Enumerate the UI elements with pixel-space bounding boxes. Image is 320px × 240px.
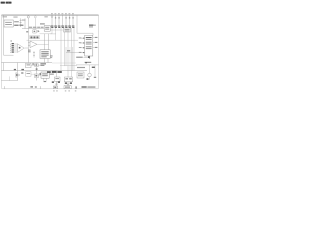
- wire: [17, 63, 19, 74]
- wire: [92, 33, 94, 35]
- wire: [50, 29, 63, 31]
- wire trunk B: [34, 18, 36, 29]
- frame: [1, 15, 98, 89]
- terminal circle A: [27, 16, 29, 18]
- wire bus: [22, 28, 44, 30]
- wire: [24, 18, 26, 28]
- mark: [75, 86, 76, 88]
- pin labels right: [95, 37, 98, 48]
- terminal circle C: [51, 16, 53, 18]
- label row: [14, 25, 18, 26]
- label: [30, 86, 33, 87]
- pin stubs right: [93, 38, 95, 48]
- title: [1, 2, 12, 4]
- wire right riser: [76, 15, 78, 33]
- wire: [40, 33, 53, 35]
- label: [40, 23, 45, 24]
- connector pin labels: [51, 25, 75, 28]
- pin labels: [12, 43, 14, 53]
- label row under top rail: [2, 16, 47, 20]
- fusible link: [20, 18, 22, 27]
- terminal circle B: [34, 16, 36, 18]
- arrow ticks: [10, 41, 12, 53]
- wire: [48, 34, 50, 50]
- main bus 2: [1, 70, 87, 72]
- lamp box B2: [77, 72, 84, 78]
- wire: [94, 65, 96, 78]
- label: [52, 81, 54, 83]
- label: [40, 63, 46, 64]
- pin arrows: [83, 38, 84, 54]
- wire: [60, 64, 77, 66]
- wire: [50, 33, 56, 35]
- pin stubs left: [66, 38, 85, 52]
- label: [65, 82, 67, 84]
- antenna feed triangle: [18, 44, 25, 53]
- label: [14, 69, 16, 70]
- label: [44, 81, 47, 82]
- wire mid bus: [27, 39, 79, 41]
- label: [50, 74, 54, 75]
- pin numbers below rail: [53, 90, 76, 91]
- label dark row: [47, 71, 62, 73]
- label top right: [89, 25, 96, 28]
- junction box J1: [44, 26, 50, 32]
- transistor chain Q1: [31, 63, 41, 81]
- wire label row: [29, 27, 44, 28]
- label: [70, 82, 72, 84]
- top rail: [1, 14, 98, 16]
- relay box K2: [64, 28, 71, 32]
- wire: [77, 32, 93, 34]
- wire: [4, 54, 14, 56]
- label: [26, 31, 28, 32]
- label: [32, 63, 34, 64]
- ground G1: [55, 81, 58, 85]
- wires into antenna feed: [14, 44, 18, 52]
- wire: [25, 47, 29, 49]
- main bus 1: [1, 62, 52, 64]
- ECU box M1: [40, 50, 50, 59]
- label: [35, 86, 37, 87]
- wire: [9, 76, 11, 80]
- wire: [37, 43, 49, 45]
- label: [21, 69, 24, 70]
- wire trunk A: [27, 18, 29, 63]
- wire: [51, 28, 53, 34]
- connector bank tick labels above rail: [51, 12, 74, 15]
- pin tick labels: [79, 38, 82, 53]
- diode arrow: [38, 30, 40, 32]
- label: [39, 73, 41, 74]
- wire: [56, 71, 58, 77]
- label: [28, 50, 31, 53]
- node dot: [19, 47, 21, 49]
- switch S1: [33, 51, 35, 57]
- connector box CL2: [26, 72, 31, 77]
- relay K1: [33, 30, 36, 33]
- label: [50, 55, 52, 56]
- bottom label text: [82, 86, 96, 87]
- wire: [46, 78, 48, 80]
- ECU box M2: [41, 72, 49, 78]
- connector bank wires: [52, 15, 73, 26]
- wire: [44, 34, 46, 50]
- op-amp U2: [30, 41, 37, 48]
- label: [21, 72, 23, 73]
- wire: [28, 45, 30, 47]
- ground G2: [67, 82, 70, 86]
- relay box R2: [64, 77, 72, 82]
- ECU box U1: [85, 35, 93, 56]
- wire: [47, 58, 49, 62]
- battery: [53, 86, 57, 89]
- label: [14, 21, 19, 22]
- wire: [44, 58, 46, 62]
- label: [58, 81, 60, 83]
- connector C9: [64, 86, 71, 89]
- lamp L2: [87, 65, 92, 80]
- connector box CL1: [26, 63, 31, 67]
- wire left trunk: [3, 15, 5, 55]
- buzzer L1: [16, 73, 20, 78]
- label: [94, 77, 96, 78]
- center low verticals: [56, 28, 75, 77]
- wire: [3, 63, 5, 71]
- wire label: [67, 50, 70, 51]
- connector row: [30, 36, 40, 39]
- wire: [89, 56, 91, 59]
- fuse box F1: [4, 20, 13, 27]
- wire: [28, 41, 30, 43]
- wire: [43, 78, 45, 80]
- wire: [17, 77, 19, 81]
- relay box R1: [54, 77, 60, 81]
- right label row 1: [76, 56, 90, 59]
- wire: [4, 86, 6, 89]
- connector squares: [55, 17, 74, 18]
- wire: [40, 86, 42, 89]
- label: [50, 57, 52, 58]
- wire: [1, 80, 17, 82]
- right label row 2: [85, 62, 92, 64]
- right label row 3: [77, 67, 95, 69]
